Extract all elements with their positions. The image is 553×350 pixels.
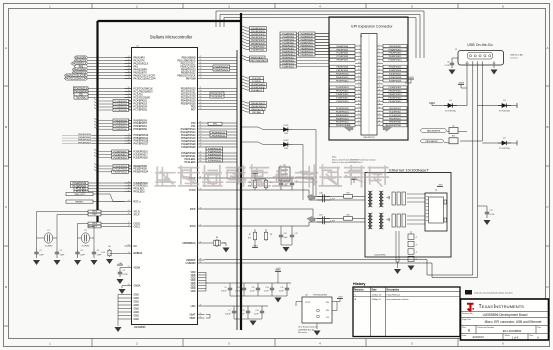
- svg-text:PB5/EPI0S22: PB5/EPI0S22: [389, 91, 403, 93]
- svg-text:PH4/EPI0S10: PH4/EPI0S10: [78, 134, 92, 136]
- svg-text:PH1/EPI0S7: PH1/EPI0S7: [389, 108, 402, 110]
- svg-text:PH5/EPI0S11: PH5/EPI0S11: [78, 137, 92, 139]
- svg-text:PH4/EPI0S10: PH4/EPI0S10: [336, 73, 350, 75]
- svg-text:PC4/EPI0S2: PC4/EPI0S2: [389, 111, 402, 113]
- svg-text:ID: ID: [482, 63, 483, 65]
- svg-text:11: 11: [358, 62, 360, 64]
- svg-text:C15: C15: [280, 287, 283, 289]
- svg-text:NSTRUMENTS: NSTRUMENTS: [495, 304, 524, 309]
- svg-text:ERBIAS: ERBIAS: [134, 252, 143, 255]
- svg-text:Rev: Rev: [530, 335, 534, 337]
- svg-text:PH2/EPI0S1: PH2/EPI0S1: [336, 60, 349, 62]
- svg-text:91: 91: [128, 56, 130, 58]
- svg-text:32: 32: [379, 96, 381, 98]
- svg-text:PB5/EPI0S22: PB5/EPI0S22: [336, 115, 350, 117]
- svg-text:0.1UF: 0.1UF: [250, 291, 255, 293]
- svg-text:B: B: [5, 125, 7, 129]
- svg-text:first production release: first production release: [387, 298, 410, 301]
- svg-text:PJ3/EPI0S19: PJ3/EPI0S19: [389, 80, 402, 82]
- svg-text:45: 45: [128, 65, 130, 67]
- svg-text:B: B: [468, 329, 470, 333]
- svg-text:25: 25: [200, 87, 202, 89]
- svg-text:PF3/LED0: PF3/LED0: [184, 161, 196, 164]
- svg-text:PF5/EPI0S15: PF5/EPI0S15: [336, 91, 349, 93]
- svg-text:79: 79: [128, 90, 130, 92]
- svg-text:55: 55: [200, 242, 202, 244]
- svg-text:PE2/EPI0S24: PE2/EPI0S24: [336, 122, 350, 124]
- svg-text:10: 10: [128, 185, 130, 187]
- svg-text:C13: C13: [265, 287, 268, 289]
- svg-text:17: 17: [358, 72, 360, 74]
- svg-text:D+: D+: [477, 63, 479, 65]
- svg-text:58: 58: [200, 90, 202, 92]
- svg-text:37: 37: [358, 107, 360, 109]
- svg-text:LM3S9B96: LM3S9B96: [134, 327, 146, 329]
- svg-text:36: 36: [379, 103, 381, 105]
- svg-text:95: 95: [200, 262, 202, 264]
- svg-text:EK-LM3S9B96: EK-LM3S9B96: [503, 329, 522, 333]
- svg-text:23: 23: [128, 77, 130, 79]
- svg-text:PE3/EPI0S25: PE3/EPI0S25: [389, 101, 403, 103]
- svg-text:C50: C50: [319, 215, 322, 217]
- svg-text:39: 39: [358, 110, 360, 112]
- svg-text:Initial Release: Initial Release: [387, 293, 402, 296]
- svg-text:LED2: LED2: [283, 140, 289, 142]
- svg-text:C6: C6: [447, 62, 449, 64]
- svg-text:OSC1: OSC1: [134, 225, 141, 228]
- svg-text:R8: R8: [270, 234, 272, 236]
- svg-text:VIN: VIN: [326, 302, 330, 304]
- svg-text:PJ2/EPI0S18: PJ2/EPI0S18: [336, 101, 349, 103]
- svg-text:C2: C2: [60, 250, 62, 252]
- svg-text:PJ2/EPI0S18: PJ2/EPI0S18: [389, 77, 402, 79]
- svg-text:20: 20: [200, 143, 202, 145]
- svg-text:25.0MHZ: 25.0MHZ: [82, 246, 91, 248]
- svg-text:R6: R6: [216, 237, 218, 239]
- svg-text:GND: GND: [493, 63, 496, 65]
- svg-text:C3: C3: [80, 250, 82, 252]
- svg-text:C10: C10: [237, 287, 240, 289]
- svg-text:indicates factory-default jump: indicates factory-default jumper positio…: [474, 292, 514, 295]
- svg-text:42: 42: [379, 114, 381, 116]
- svg-text:75: 75: [416, 252, 418, 254]
- svg-text:PE2/EPI0S24: PE2/EPI0S24: [389, 98, 403, 100]
- svg-text:IntLvl = 0 Ohm for LM3S9B96 Re: IntLvl = 0 Ohm for LM3S9B96 Rev C: [332, 161, 363, 164]
- svg-text:30: 30: [200, 208, 202, 210]
- svg-text:PF3/LED0: PF3/LED0: [134, 191, 146, 194]
- svg-text:27: 27: [358, 90, 360, 92]
- svg-text:78: 78: [200, 77, 202, 79]
- svg-text:R9: R9: [108, 246, 110, 248]
- svg-text:Stellaris Microcontroller: Stellaris Microcontroller: [150, 35, 193, 40]
- svg-text:A: A: [5, 46, 7, 50]
- svg-text:37: 37: [128, 225, 130, 227]
- svg-text:45: 45: [128, 182, 130, 184]
- svg-text:10pF: 10pF: [284, 237, 288, 239]
- svg-text:PJ5/EPI0S31: PJ5/EPI0S31: [251, 50, 265, 52]
- svg-text:U5: U5: [452, 125, 454, 127]
- svg-text:56: 56: [200, 189, 202, 191]
- svg-text:22: 22: [200, 152, 202, 154]
- svg-text:36: 36: [200, 259, 202, 261]
- svg-text:+3.3V: +3.3V: [338, 297, 344, 299]
- svg-text:0.1UF: 0.1UF: [123, 274, 129, 276]
- svg-text:30: 30: [128, 187, 130, 189]
- svg-text:VBUS: VBUS: [465, 63, 469, 65]
- svg-text:15: 15: [200, 71, 202, 73]
- svg-text:29: 29: [128, 222, 130, 224]
- svg-text:VOUT: VOUT: [305, 302, 311, 304]
- svg-text:1 of 9: 1 of 9: [512, 335, 519, 339]
- svg-text:39: 39: [200, 137, 202, 139]
- svg-text:23: 23: [128, 252, 130, 254]
- svg-text:15: 15: [358, 69, 360, 71]
- svg-text:16: 16: [379, 69, 381, 71]
- svg-text:81: 81: [128, 137, 130, 139]
- svg-text:PE1/EPI0S9: PE1/EPI0S9: [389, 46, 401, 48]
- svg-text:PE2/EPI0S24: PE2/EPI0S24: [134, 171, 149, 174]
- svg-text:29: 29: [358, 93, 360, 95]
- svg-text:PA7/I2C1SDA/CCP4: PA7/I2C1SDA/CCP4: [66, 77, 88, 80]
- svg-text:21: 21: [128, 93, 130, 95]
- svg-text:GRN: GRN: [284, 148, 289, 150]
- svg-text:C4: C4: [97, 250, 99, 252]
- svg-text:PJ2/EPI0S18: PJ2/EPI0S18: [114, 157, 128, 159]
- svg-text:99: 99: [128, 190, 130, 192]
- svg-text:PH7/EPI0S27: PH7/EPI0S27: [78, 142, 92, 144]
- svg-text:PF4/EPI0S12: PF4/EPI0S12: [336, 80, 349, 82]
- svg-text:94: 94: [200, 134, 202, 136]
- svg-text:+3.3V: +3.3V: [438, 185, 444, 187]
- svg-text:PD6/FAULT: PD6/FAULT: [251, 89, 263, 92]
- svg-text:20: 20: [200, 93, 202, 95]
- svg-text:41: 41: [128, 68, 130, 70]
- svg-text:EXAS: EXAS: [482, 304, 493, 309]
- svg-text:RESETn: RESETn: [75, 202, 84, 204]
- svg-text:PJ7/EPI0S31: PJ7/EPI0S31: [208, 160, 222, 162]
- svg-text:90: 90: [200, 102, 202, 104]
- svg-text:0.1UF: 0.1UF: [264, 291, 269, 293]
- svg-text:PF5/EPI0S15: PF5/EPI0S15: [389, 67, 402, 69]
- svg-text:PB4/EPI0S23: PB4/EPI0S23: [389, 94, 403, 96]
- svg-text:STVS4P2ZAQ: STVS4P2ZAQ: [499, 110, 511, 113]
- svg-text:68: 68: [200, 161, 202, 163]
- svg-text:47: 47: [200, 99, 202, 101]
- svg-text:C45: C45: [284, 233, 287, 235]
- svg-text:PB7/NMI: PB7/NMI: [252, 112, 261, 114]
- svg-text:43: 43: [200, 68, 202, 70]
- svg-text:R43: R43: [346, 193, 349, 195]
- svg-text:RST_n: RST_n: [134, 200, 142, 203]
- svg-text:PH1/EPI0S7: PH1/EPI0S7: [336, 49, 349, 51]
- svg-text:Description: Description: [387, 289, 400, 292]
- svg-text:STVS4P2ZAQ: STVS4P2ZAQ: [445, 110, 457, 113]
- svg-text:PH7/EPI0S27: PH7/EPI0S27: [134, 143, 149, 146]
- svg-text:VBAT: VBAT: [189, 317, 196, 320]
- svg-text:Page Title: Page Title: [462, 318, 472, 321]
- svg-text:PG1/EPI0S14: PG1/EPI0S14: [336, 87, 350, 89]
- svg-text:22: 22: [200, 56, 202, 58]
- svg-text:A: A: [537, 335, 539, 339]
- svg-text:24: 24: [379, 83, 381, 85]
- svg-text:D3: D3: [503, 100, 505, 102]
- svg-text:38: 38: [128, 71, 130, 73]
- svg-text:28: 28: [379, 90, 381, 92]
- svg-text:58: 58: [128, 284, 130, 286]
- svg-text:PD3/EPI0S21: PD3/EPI0S21: [389, 87, 403, 89]
- svg-text:75: 75: [416, 244, 418, 246]
- svg-text:PH3/EPI0S0: PH3/EPI0S0: [389, 122, 402, 124]
- svg-text:C47: C47: [295, 233, 298, 235]
- svg-text:83: 83: [200, 122, 202, 124]
- svg-text:33: 33: [358, 100, 360, 102]
- svg-text:PB1/USB0VBUS: PB1/USB0VBUS: [250, 60, 267, 62]
- svg-text:PJ5/EPI0S29: PJ5/EPI0S29: [181, 146, 196, 149]
- svg-text:Document Number: Document Number: [478, 326, 495, 329]
- svg-text:Rev: Rev: [538, 327, 542, 329]
- svg-text:C17: C17: [490, 210, 493, 212]
- svg-text:99: 99: [200, 313, 202, 315]
- svg-text:49.9: 49.9: [248, 238, 251, 240]
- svg-text:35: 35: [358, 103, 360, 105]
- svg-text:+3.3V: +3.3V: [408, 77, 414, 79]
- svg-text:C1: C1: [39, 250, 41, 252]
- svg-text:C5: C5: [123, 270, 125, 272]
- svg-text:PJ2/EPI0S18: PJ2/EPI0S18: [134, 156, 149, 159]
- svg-text:USB On-the-Go: USB On-the-Go: [467, 43, 492, 47]
- svg-text:38: 38: [379, 107, 381, 109]
- svg-text:PF5/EPI0S15: PF5/EPI0S15: [212, 135, 226, 137]
- svg-text:JTAG_RST: JTAG_RST: [74, 193, 85, 196]
- svg-text:USB0RBIAS: USB0RBIAS: [182, 242, 196, 245]
- svg-text:10: 10: [379, 59, 381, 61]
- svg-text:PA7/USB0PFLT: PA7/USB0PFLT: [426, 140, 440, 143]
- svg-text:53: 53: [128, 245, 130, 247]
- svg-text:Ethernet 10/100baseT: Ethernet 10/100baseT: [389, 168, 429, 173]
- svg-text:75: 75: [416, 259, 418, 261]
- svg-text:TXON: TXON: [189, 189, 196, 192]
- svg-text:0.01UF: 0.01UF: [235, 291, 241, 293]
- svg-text:13 Apr 10: 13 Apr 10: [372, 298, 382, 301]
- svg-text:91: 91: [200, 177, 202, 179]
- svg-text:A: A: [546, 46, 548, 50]
- svg-text:4/20/2010: 4/20/2010: [472, 335, 484, 339]
- svg-text:LM3S9B96 Development Board: LM3S9B96 Development Board: [483, 313, 528, 317]
- svg-text:GRN: GRN: [284, 133, 289, 135]
- svg-text:PD7: PD7: [191, 108, 196, 111]
- svg-text:25: 25: [358, 86, 360, 88]
- svg-text:PJ1/EPI0S17: PJ1/EPI0S17: [336, 98, 349, 100]
- svg-text:PJ0/EPI0S16: PJ0/EPI0S16: [336, 94, 349, 96]
- svg-text:PH3/EPI0S0: PH3/EPI0S0: [115, 129, 128, 131]
- svg-text:PJ1/EPI0S17: PJ1/EPI0S17: [282, 66, 295, 68]
- svg-text:57: 57: [200, 225, 202, 227]
- svg-text:R13: R13: [452, 136, 455, 138]
- svg-text:See errata.: See errata.: [298, 331, 308, 334]
- svg-text:GNDA: GNDA: [134, 284, 141, 287]
- svg-text:21: 21: [128, 266, 130, 268]
- svg-text:PB4/EPI0S23: PB4/EPI0S23: [336, 118, 350, 120]
- svg-text:80: 80: [200, 96, 202, 98]
- svg-text:89: 89: [200, 105, 202, 107]
- svg-text:PH5/EPI0S11: PH5/EPI0S11: [336, 77, 350, 79]
- svg-text:PE3/EPI0S25: PE3/EPI0S25: [301, 54, 314, 56]
- svg-text:PD2/EPI0S20: PD2/EPI0S20: [336, 108, 350, 110]
- svg-text:2041008UNL: 2041008UNL: [374, 255, 387, 257]
- svg-text:D4: D4: [449, 100, 451, 102]
- svg-text:PC4/EPI0S2: PC4/EPI0S2: [336, 53, 349, 55]
- svg-text:R44: R44: [346, 215, 349, 217]
- svg-text:RXIP: RXIP: [190, 208, 196, 211]
- svg-text:35: 35: [128, 140, 130, 142]
- svg-text:44: 44: [379, 117, 381, 119]
- svg-text:56: 56: [200, 108, 202, 110]
- svg-text:0.01UF: 0.01UF: [225, 314, 231, 316]
- svg-text:PA6/USB0EPEN: PA6/USB0EPEN: [427, 130, 441, 133]
- svg-text:48: 48: [379, 124, 381, 126]
- svg-text:PF4/EPI0S12: PF4/EPI0S12: [389, 56, 402, 58]
- svg-text:21: 21: [358, 79, 360, 81]
- svg-text:PE2/EPI0S24: PE2/EPI0S24: [113, 172, 127, 174]
- svg-text:0.01UF: 0.01UF: [221, 291, 227, 293]
- svg-text:U3 is Required only for: U3 is Required only for: [298, 326, 318, 329]
- svg-text:C9: C9: [224, 287, 226, 289]
- svg-text:30: 30: [379, 93, 381, 95]
- svg-text:B: B: [546, 125, 548, 129]
- svg-text:18: 18: [200, 128, 202, 130]
- svg-text:NC: NC: [134, 245, 138, 248]
- svg-text:R7: R7: [249, 234, 251, 236]
- svg-text:12: 12: [379, 62, 381, 64]
- svg-text:DF9-51P-1V: DF9-51P-1V: [363, 137, 375, 139]
- svg-text:Revision: Revision: [354, 290, 364, 292]
- svg-text:31: 31: [358, 96, 360, 98]
- svg-text:64: 64: [128, 200, 130, 202]
- svg-text:C16: C16: [255, 310, 258, 312]
- svg-text:LDO: LDO: [191, 305, 196, 308]
- svg-text:+VBUS: +VBUS: [458, 83, 465, 85]
- svg-text:27: 27: [128, 74, 130, 76]
- svg-text:14: 14: [379, 65, 381, 67]
- svg-text:75: 75: [416, 237, 418, 239]
- svg-text:15: 15: [200, 131, 202, 133]
- svg-text:93: 93: [128, 142, 130, 144]
- svg-text:USB0DM: USB0DM: [186, 262, 196, 265]
- svg-text:47: 47: [200, 140, 202, 142]
- svg-text:EPI Expansion Connector: EPI Expansion Connector: [351, 25, 393, 29]
- svg-text:16.0MHZ: 16.0MHZ: [45, 246, 54, 248]
- svg-text:PH5/EPI0S11: PH5/EPI0S11: [389, 53, 403, 55]
- svg-text:PH0/EPI0S6: PH0/EPI0S6: [336, 46, 349, 48]
- svg-text:26: 26: [379, 86, 381, 88]
- svg-text:C8: C8: [242, 310, 244, 312]
- svg-text:Sheet: Sheet: [505, 334, 511, 337]
- svg-text:PE1/EPI0S9: PE1/EPI0S9: [336, 70, 348, 72]
- svg-text:PB7/NMI: PB7/NMI: [186, 77, 196, 80]
- svg-text:IntLvl = 10 Ohm for LM3S9B96 R: IntLvl = 10 Ohm for LM3S9B96 Rev B1 (no …: [332, 158, 376, 161]
- svg-text:LED1: LED1: [283, 125, 289, 127]
- svg-text:23: 23: [358, 83, 360, 85]
- svg-text:C7: C7: [228, 310, 230, 312]
- svg-text:TPS73633DRB: TPS73633DRB: [313, 295, 327, 297]
- svg-text:13: 13: [128, 134, 130, 136]
- svg-text:45: 45: [358, 121, 360, 123]
- svg-text:47: 47: [358, 124, 360, 126]
- svg-text:Note:: Note:: [332, 156, 337, 159]
- svg-text:55: 55: [200, 59, 202, 61]
- svg-text:54: 54: [200, 62, 202, 64]
- svg-text:RXIN: RXIN: [190, 225, 196, 228]
- svg-text:97: 97: [200, 317, 202, 319]
- svg-text:39: 39: [200, 146, 202, 148]
- svg-text:45: 45: [128, 213, 130, 215]
- svg-text:13: 13: [128, 62, 130, 64]
- svg-text:PJ0/EPI0S16: PJ0/EPI0S16: [389, 70, 402, 72]
- svg-text:VDD: VDD: [190, 290, 195, 293]
- svg-text:20: 20: [379, 76, 381, 78]
- svg-text:96: 96: [128, 87, 130, 89]
- svg-text:PC7/EPI0S5: PC7/EPI0S5: [134, 108, 148, 111]
- svg-text:PB5/EPI0S22: PB5/EPI0S22: [215, 69, 229, 71]
- svg-text:PH2/EPI0S1: PH2/EPI0S1: [389, 118, 402, 120]
- svg-text:13: 13: [358, 65, 360, 67]
- svg-text:PJ1/EPI0S17: PJ1/EPI0S17: [389, 73, 402, 75]
- svg-text:19: 19: [358, 76, 360, 78]
- svg-text:TDO/SWO: TDO/SWO: [76, 97, 87, 99]
- svg-text:2.2UF: 2.2UF: [254, 314, 259, 316]
- svg-text:C48: C48: [319, 193, 322, 195]
- svg-text:+3.3V: +3.3V: [276, 268, 282, 270]
- svg-text:43: 43: [358, 117, 360, 119]
- svg-text:85: 85: [128, 96, 130, 98]
- svg-text:PH4/EPI0S10: PH4/EPI0S10: [389, 49, 403, 51]
- svg-text:D2: D2: [503, 137, 505, 139]
- svg-text:34: 34: [379, 100, 381, 102]
- svg-text:connector: connector: [510, 57, 518, 60]
- svg-text:34: 34: [200, 125, 202, 127]
- svg-text:Drawing No.: Drawing No.: [462, 313, 473, 315]
- svg-text:45: 45: [200, 158, 202, 160]
- svg-text:J3: J3: [360, 36, 362, 38]
- svg-text:PC5/EPI0S3: PC5/EPI0S3: [389, 115, 402, 117]
- svg-text:58: 58: [200, 155, 202, 157]
- svg-text:53: 53: [128, 210, 130, 212]
- svg-text:PC5/EPI0S3: PC5/EPI0S3: [336, 56, 349, 58]
- svg-text:PD3/EPI0S21: PD3/EPI0S21: [336, 111, 350, 113]
- svg-text:USB Micro AB: USB Micro AB: [510, 54, 523, 57]
- svg-text:Date: Date: [372, 289, 378, 292]
- svg-text:PC7/EPI0S5: PC7/EPI0S5: [115, 110, 128, 112]
- svg-text:C11: C11: [252, 287, 255, 289]
- svg-text:LM3S9B96 Rev B1.: LM3S9B96 Rev B1.: [298, 329, 315, 331]
- svg-text:GND: GND: [134, 318, 140, 321]
- svg-text:XTLP: XTLP: [134, 213, 140, 216]
- svg-text:PD2/U1RX: PD2/U1RX: [212, 96, 223, 98]
- svg-text:18: 18: [379, 72, 381, 74]
- svg-text:PH6/EPI0S26: PH6/EPI0S26: [78, 140, 92, 142]
- svg-text:41: 41: [358, 114, 360, 116]
- svg-text:PH3/EPI0S0: PH3/EPI0S0: [134, 128, 148, 131]
- svg-text:PG: PG: [326, 317, 329, 319]
- svg-text:40: 40: [379, 110, 381, 112]
- svg-text:PG0/EPI0S13: PG0/EPI0S13: [389, 60, 403, 62]
- svg-text:46: 46: [379, 121, 381, 123]
- svg-text:68: 68: [200, 74, 202, 76]
- svg-text:PA7/I2C1SDA/CCP4: PA7/I2C1SDA/CCP4: [134, 77, 157, 80]
- svg-text:History: History: [353, 282, 365, 286]
- svg-text:24: 24: [128, 59, 130, 61]
- svg-text:22: 22: [379, 79, 381, 81]
